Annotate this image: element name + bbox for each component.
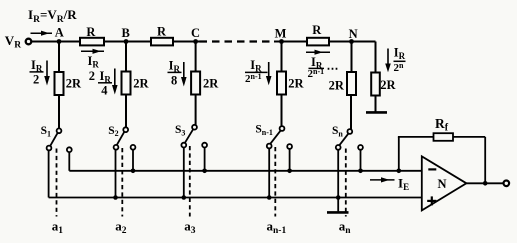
resistor R1 (A-B) [80, 38, 104, 46]
switch S2 pole contact [123, 127, 128, 132]
resistor 2R branch M [277, 72, 286, 95]
resistor 2R branch N [347, 72, 356, 95]
wire switch S1 right throw to summing bus [68, 152, 70, 171]
arrow down termination [385, 49, 391, 73]
wire B 2R to switch S2 [125, 95, 127, 128]
wire C 2R to switch S3 [195, 95, 197, 125]
wire switch S1 left throw to ground bus [48, 150, 50, 197]
junction S2 left on ground bus [113, 195, 118, 200]
wire feedback down to output [484, 137, 486, 183]
svg-text:2: 2 [89, 69, 95, 83]
wire N 2R to switch Sn [350, 95, 352, 129]
junction Sn left on ground bus [336, 195, 341, 200]
svg-text:N: N [438, 177, 447, 191]
wire termination corner down [375, 42, 377, 73]
wire switch S2 right throw to summing bus [132, 150, 134, 171]
svg-text:⋯: ⋯ [327, 62, 339, 76]
wire switch S3 right throw to summing bus [204, 148, 206, 171]
switch Sn pole contact [347, 129, 352, 134]
svg-text:R: R [86, 25, 96, 39]
wire A 2R to switch S1 [58, 95, 60, 128]
svg-text:A: A [55, 26, 64, 40]
wire branch A vertical [58, 42, 60, 73]
switch S3 left throw contact [181, 143, 186, 148]
junction output feedback [483, 181, 488, 186]
switch Sn-1 pole contact [280, 126, 285, 131]
svg-text:4: 4 [101, 84, 108, 98]
switch S2 left throw contact [114, 145, 119, 150]
wire op-amp output [466, 182, 503, 184]
op-amp N [422, 156, 467, 210]
wire top rail VR to first R [32, 41, 81, 43]
resistor Rf [434, 133, 454, 141]
wire switch Sn right throw to summing bus [360, 150, 362, 171]
junction S3 left on ground bus [182, 195, 187, 200]
switch S1 pole contact [57, 128, 62, 133]
wire switch Sn-1 left throw to ground bus [268, 148, 270, 197]
resistor R2 (B-C) [151, 38, 173, 46]
junction Sn-1 left on ground bus [267, 195, 272, 200]
switch S2 arm [117, 132, 124, 145]
wire switch S2 left throw to ground bus [115, 150, 117, 198]
junction Sn-1 right on summing bus [287, 169, 292, 174]
wire R1 to R2 through node B [104, 41, 151, 43]
node C [193, 39, 198, 44]
wire branch N vertical [351, 42, 353, 73]
terminal VR [26, 39, 32, 45]
switch Sn left throw contact [336, 145, 341, 150]
arrow down branch B [112, 69, 118, 95]
switch Sn-1 left throw contact [267, 144, 272, 149]
switch Sn-1 right throw contact [287, 144, 292, 149]
control dashed line an [345, 149, 347, 217]
wire switch Sn left throw to ground bus [337, 150, 339, 212]
svg-text:2R: 2R [203, 76, 219, 90]
wire branch B vertical [125, 42, 127, 72]
wire feedback tap up [398, 137, 400, 171]
control dashed line an-1 [274, 147, 276, 217]
switch Sn-1 [267, 126, 292, 197]
switch S3 pole contact [192, 125, 197, 130]
arrow down branch M [266, 62, 272, 85]
junction S2 right on summing bus [131, 169, 136, 174]
svg-text:2: 2 [33, 73, 39, 87]
switch S1 right throw contact [67, 147, 72, 152]
svg-text:R: R [312, 23, 322, 37]
wire ground bus to op-amp noninverting input [49, 197, 422, 199]
switch S2 [114, 127, 136, 197]
wire termination 2R to ground [375, 96, 377, 112]
node M [279, 39, 284, 44]
svg-text:2R: 2R [288, 76, 304, 90]
control dashed line a2 [121, 148, 123, 217]
wire feedback top right segment [453, 136, 485, 138]
resistor 2R termination [371, 73, 380, 96]
switch S3 right throw contact [202, 143, 207, 148]
junction feedback tap on summing bus [397, 169, 402, 174]
wire M 2R to switch Sn-1 [281, 95, 283, 127]
switch Sn arm [339, 134, 348, 146]
svg-text:C: C [191, 26, 200, 40]
switch S2 right throw contact [131, 145, 136, 150]
arrow current IE [370, 177, 395, 182]
arrow current into node A [31, 31, 53, 36]
svg-text:2R: 2R [133, 76, 149, 90]
wire R2 to node C [173, 41, 201, 43]
node A [57, 39, 62, 44]
svg-text:M: M [275, 27, 287, 41]
wire branch C vertical [195, 42, 197, 72]
switch Sn right throw contact [358, 145, 363, 150]
resistor 2R branch A [55, 72, 64, 95]
junction Sn right on summing bus [358, 169, 363, 174]
svg-text:N: N [349, 27, 358, 41]
ground bar under Sn [327, 211, 349, 214]
svg-text:2R: 2R [329, 79, 345, 93]
node N [349, 39, 354, 44]
wire M to R3 [274, 41, 307, 43]
arrow down branch C [181, 62, 187, 87]
wire switch S3 left throw to ground bus [183, 148, 185, 198]
node B [124, 39, 129, 44]
resistor 2R branch C [191, 72, 200, 95]
wire branch M vertical [281, 42, 283, 72]
terminal output [504, 181, 510, 187]
svg-text:R: R [157, 24, 167, 38]
switch Sn [336, 129, 363, 211]
resistor R3 (M-N) [307, 38, 329, 46]
wire R3 to N to right corner [329, 41, 376, 43]
wire feedback top left segment [398, 136, 434, 138]
switch S3 [181, 125, 207, 198]
current label IR/2 through R1 [81, 49, 104, 54]
junction S3 right on summing bus [202, 169, 207, 174]
ground termination bar [366, 111, 387, 114]
wire summing bus to op-amp inverting input [69, 170, 422, 172]
switch Sn-1 arm [270, 131, 280, 144]
svg-text:2R: 2R [66, 76, 82, 90]
svg-text:B: B [122, 26, 130, 40]
wire switch Sn-1 right throw to summing bus [289, 149, 291, 171]
control dashed line a1 [56, 149, 58, 217]
svg-text:2R: 2R [380, 78, 396, 92]
switch S1 left throw contact [47, 146, 52, 151]
current label IR/2^n-1 through R3 with dots [306, 50, 330, 55]
arrow down branch A [44, 61, 50, 86]
control dashed line a3 [189, 146, 191, 217]
svg-text:8: 8 [171, 74, 177, 88]
switch S1 arm [50, 133, 57, 146]
switch S1 [47, 128, 72, 197]
wire dashed C to M [200, 40, 275, 42]
op-amp minus sign [428, 168, 436, 170]
switch S3 arm [185, 129, 193, 142]
op-amp plus sign [427, 196, 436, 205]
resistor 2R branch B [122, 72, 131, 95]
